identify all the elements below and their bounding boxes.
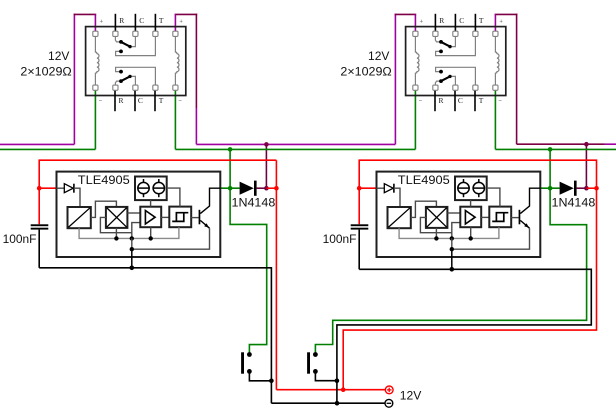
IC U2 wire regulator to X-block [411, 201, 437, 217]
relay K1 top pin stubs R C T [114, 14, 116, 32]
wire black switch S1 to ground vertical [249, 371, 271, 380]
svg-text:100nF: 100nF [3, 234, 37, 246]
wire black switch S2 to ground vertical [315, 371, 337, 380]
relay K2 pins (squares) [413, 31, 418, 36]
wire red bottom to +12V terminal [276, 389, 385, 391]
IC U1 ground lead (to box bottom) [131, 249, 133, 268]
IC U1 X (mixer) block [106, 207, 128, 228]
IC U2 ground bus [399, 227, 499, 238]
junction green tap (right) [548, 147, 553, 152]
svg-text:TLE4905: TLE4905 [78, 173, 130, 187]
wire black ground from C2 loop (right) [358, 230, 360, 270]
svg-text:2×1029Ω: 2×1029Ω [340, 64, 391, 78]
relay K1 box [86, 27, 186, 96]
wire red node A to red vertical [266, 187, 276, 189]
relay K2 bottom pin stubs R C T [434, 90, 436, 111]
wire red +12V rail (left circuit) [39, 160, 276, 224]
IC U2 schmitt-trigger block [489, 207, 511, 228]
transistor Q inside U2 [511, 217, 519, 219]
IC U2 ground lead (to box bottom) [451, 249, 453, 269]
wire maroon relay K2 right + down [516, 14, 518, 145]
wire purple continues off right edge [605, 143, 616, 145]
svg-text:−: − [99, 98, 103, 105]
relay K1 switch contact 1 (top) [115, 36, 120, 42]
IC U2 amplifier block [460, 207, 481, 228]
wire black bottom to -12V terminal [271, 402, 385, 404]
relay K2 box [406, 27, 506, 96]
svg-text:C: C [458, 96, 463, 105]
wire maroon top jumper relay K1 right + [175, 13, 198, 15]
op-amp/IC U2 box TLE4905 [377, 172, 541, 257]
wire black ground from C1 to bottom (left) [38, 230, 40, 268]
IC U1 wire X left / amp lower to ground [100, 217, 131, 232]
IC U1 wire hall to schmitt top [167, 188, 180, 207]
svg-text:R: R [119, 16, 124, 25]
wire green node to switch S2 [315, 188, 586, 354]
junction red node A [274, 186, 279, 191]
switch S2 [307, 352, 310, 373]
wire maroon horizontal to node B (right) [517, 143, 605, 145]
svg-text:+: + [499, 19, 503, 26]
svg-text:100nF: 100nF [323, 234, 357, 246]
relay K2 switch contact 1 (top) [435, 36, 440, 42]
junction black at switch S2 line [335, 378, 340, 383]
wire maroon top jumper relay K1 left + [74, 13, 97, 15]
IC U2 wire X to amp [447, 212, 460, 214]
wire green vertical to diode node (left) [229, 149, 231, 188]
wire green net to previous stage (left edge) [0, 148, 95, 150]
junction green node B [548, 186, 553, 191]
wire green relay K1 right minus to relay K2 left minus [174, 90, 176, 149]
svg-text:+: + [100, 19, 104, 26]
wire red input to TLE (left) [39, 187, 56, 189]
switch S1 [241, 352, 244, 373]
svg-text:R: R [439, 96, 444, 105]
wire maroon top jumper relay K2 left + [395, 13, 417, 15]
svg-text:TLE4905: TLE4905 [398, 173, 450, 187]
node A wire: TLE1 output to diode D1 [220, 187, 239, 189]
svg-text:C: C [139, 16, 144, 25]
junction red bottom [341, 387, 346, 392]
junction purple at coil K2 node [584, 142, 589, 147]
junction red at TLE input (right) [357, 186, 362, 191]
wire red node B to red vertical [586, 187, 596, 189]
relay K1 coil B (right) [175, 36, 179, 85]
junction purple node A [264, 186, 269, 191]
junction purple at coil K1/K2 node [264, 142, 269, 147]
IC U1 schmitt-trigger block [169, 207, 191, 228]
wire red vertical through diode node down to bottom (left) [275, 160, 277, 390]
IC U1 wire hall to amp top [150, 200, 152, 207]
relay K2 coil B (right) [495, 36, 499, 85]
svg-text:12V: 12V [368, 49, 389, 63]
junction red at TLE input (left) [37, 186, 42, 191]
wire maroon D2 cathode to purple junction [577, 187, 587, 189]
wire purple relay K1 right to relay K2 left [195, 14, 197, 108]
svg-text:R: R [119, 96, 124, 105]
IC U1 wire amp to schmitt [161, 216, 169, 218]
wire green relay K2 right minus off right edge [494, 90, 496, 149]
svg-text:+: + [179, 19, 183, 26]
svg-text:C: C [138, 96, 143, 105]
svg-text:1N4148: 1N4148 [552, 198, 596, 210]
IC U1 wire regulator to X-block [91, 201, 117, 217]
relay K1 coil A (left) [95, 36, 99, 85]
svg-text:T: T [159, 96, 164, 105]
terminal 12V plus [385, 386, 393, 394]
junction red node B [594, 186, 599, 191]
IC U2 X (mixer) block [426, 207, 448, 228]
relay K1 bottom pin stubs R C T [114, 90, 116, 111]
relay K2 coil A (left) [415, 36, 419, 85]
capacitor C1 100nF [31, 224, 49, 226]
IC U2 hall plates symbol [455, 177, 487, 201]
transistor Q inside U1 [191, 217, 199, 219]
terminal 12V minus [385, 399, 393, 407]
wire purple vertical to diode node (left) [265, 144, 267, 188]
svg-text:T: T [159, 16, 164, 25]
IC U2 wire hall to schmitt top [487, 188, 500, 207]
svg-text:−: − [419, 98, 423, 105]
junction purple node B [584, 186, 589, 191]
diode D1 1N4148 [240, 182, 254, 195]
junction green tap (left) [228, 147, 233, 152]
IC U1 amplifier block [140, 207, 161, 228]
IC U2 wire hall to amp top [470, 200, 472, 207]
svg-text:+: + [420, 19, 424, 26]
svg-text:C: C [459, 16, 464, 25]
junction black ground at IC1 [130, 266, 135, 271]
wire maroon D1 cathode to purple junction [257, 187, 267, 189]
wire red input to TLE (right) [359, 187, 376, 189]
wire purple vertical to diode node (right) [585, 144, 587, 188]
IC U1 internal input diode [57, 187, 65, 189]
relay K1 switch contact 2 (bottom) [115, 81, 120, 85]
wire maroon top jumper relay K2 right + [495, 13, 518, 15]
wire purple net to previous stage (left edge) [0, 143, 74, 145]
relay K2 top pin stubs R C T [434, 14, 436, 32]
diode D2 1N4148 [560, 182, 574, 195]
junction black switch S1 [269, 379, 274, 384]
svg-text:R: R [439, 16, 444, 25]
IC U1 regulator block [68, 207, 91, 228]
svg-text:T: T [479, 16, 484, 25]
IC U1 ground bus [79, 227, 179, 238]
junction green node A [228, 186, 233, 191]
svg-text:2×1029Ω: 2×1029Ω [20, 64, 71, 78]
IC U1 hall plates symbol [135, 177, 167, 201]
svg-text:T: T [479, 96, 484, 105]
svg-text:1N4148: 1N4148 [232, 198, 276, 210]
op-amp/IC U1 box TLE4905 [57, 172, 221, 257]
IC U2 wire X left / amp lower to ground [420, 217, 451, 232]
capacitor C2 100nF [351, 224, 369, 226]
IC U1 wire X to amp [127, 212, 140, 214]
relay K2 switch contact 2 (bottom) [435, 81, 440, 85]
svg-text:−: − [498, 98, 502, 105]
wire green node to switch S1 [230, 188, 267, 354]
svg-text:12V: 12V [48, 49, 69, 63]
wire green vertical to diode node (right) [549, 149, 551, 188]
wire red +12V rail (right circuit) [343, 160, 596, 390]
junction black ground at IC2 [450, 267, 455, 272]
relay K1 pins (squares) [93, 31, 98, 36]
IC U1 emitter/ground rail [132, 228, 210, 249]
IC U2 emitter/ground rail [452, 228, 530, 249]
IC U2 regulator block [388, 207, 411, 228]
IC U2 wire amp to schmitt [481, 216, 489, 218]
svg-text:−: − [178, 98, 182, 105]
junction black at bottom line [335, 401, 340, 406]
node B wire: TLE2 output to diode D2 [540, 187, 559, 189]
IC U2 internal input diode [377, 187, 385, 189]
svg-text:12V: 12V [400, 389, 422, 403]
